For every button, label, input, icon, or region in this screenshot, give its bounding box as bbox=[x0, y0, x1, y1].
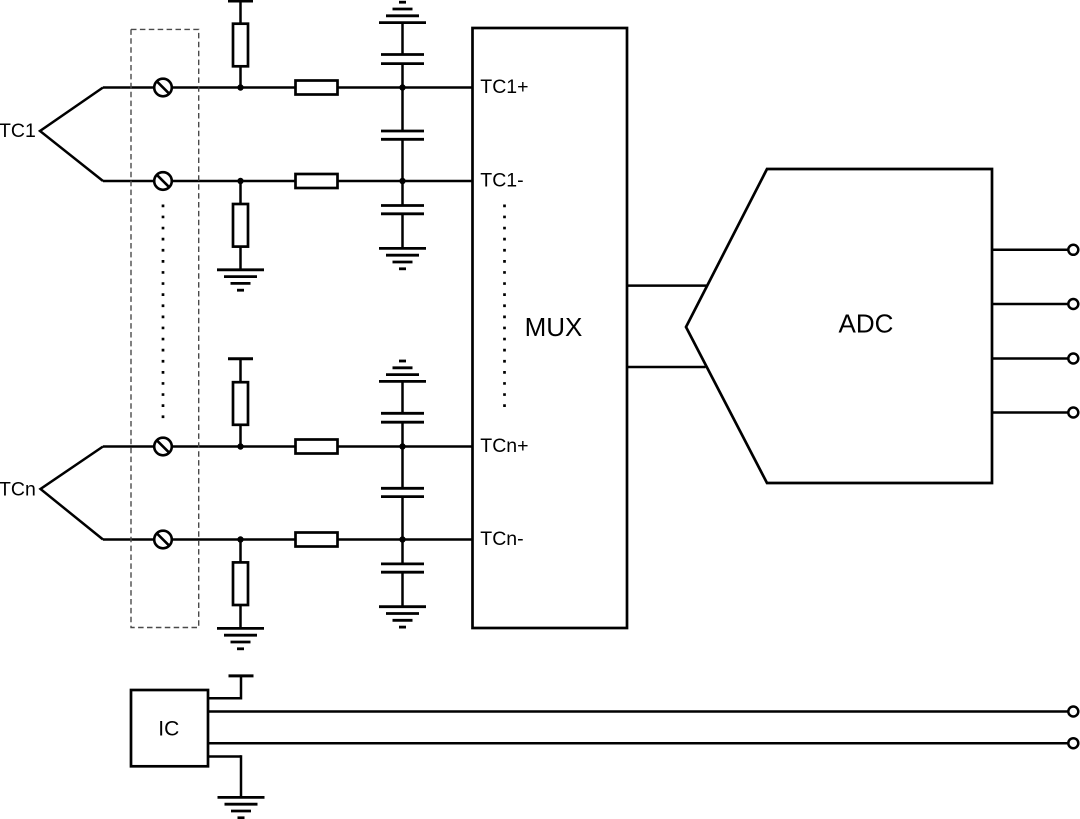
wire R pull-up to TCn+ net bbox=[239, 425, 242, 447]
ground below IC bbox=[218, 797, 265, 817]
svg-text:TCn: TCn bbox=[0, 479, 36, 501]
wire R pull-down to ground TC1- bbox=[239, 247, 242, 270]
wire shield to C (TC1+ to shield cap) bbox=[401, 23, 404, 55]
svg-text:TCn-: TCn- bbox=[480, 528, 523, 550]
wire C to TC1+ net bbox=[401, 64, 404, 131]
svg-text:ADC: ADC bbox=[839, 309, 894, 339]
wire R pull-down to ground TCn- bbox=[239, 605, 242, 628]
svg-text:MUX: MUX bbox=[525, 312, 583, 342]
svg-text:TC1: TC1 bbox=[0, 120, 36, 142]
resistor R pull-down TCn- bbox=[233, 562, 248, 605]
wire MUX to ADC lower bbox=[627, 366, 706, 369]
input connector dashed box bbox=[131, 29, 199, 627]
ground below TC1- pull-down resistor bbox=[217, 270, 264, 290]
wire R pull-up to TC1+ net bbox=[239, 66, 242, 87]
wire ADC output 3 bbox=[992, 357, 1068, 360]
svg-text:IC: IC bbox=[158, 717, 179, 740]
wire C to TCn+ net bbox=[401, 422, 404, 488]
terminal circle ADC output 4 bbox=[1068, 408, 1078, 418]
junction TC1+ / C column bbox=[399, 84, 405, 90]
svg-text:TCn+: TCn+ bbox=[480, 435, 528, 457]
ADC block U2 bbox=[686, 169, 992, 483]
wire IC pin2 output bbox=[208, 710, 1068, 713]
thermocouple TCn bbox=[0, 447, 103, 540]
wire TC1+ net bbox=[103, 86, 473, 89]
wire IC pin3 output bbox=[208, 742, 1068, 745]
resistor R pull-up TCn+ bbox=[233, 382, 248, 425]
wire IC pin4 to ground bbox=[208, 755, 241, 797]
IC block U3 bbox=[131, 690, 208, 766]
terminal circle IC pin2 bbox=[1068, 707, 1078, 717]
power rail bar above IC bbox=[229, 674, 254, 677]
svg-text:TC1-: TC1- bbox=[480, 170, 523, 192]
capacitor C differential TC1 bbox=[381, 131, 424, 139]
wire TC1- net to R pull-down bbox=[239, 181, 242, 204]
ground below C column TCn bbox=[379, 607, 426, 627]
wire TCn- net to R pull-down bbox=[239, 540, 242, 563]
wire C differential to TC1- net bbox=[401, 139, 404, 205]
connector pin TCn- (circle with slash) bbox=[154, 531, 172, 549]
connector pin TC1+ (circle with slash) bbox=[154, 79, 172, 97]
capacitor C TC1+ to shield bbox=[381, 55, 424, 64]
connector pin TC1- (circle with slash) bbox=[154, 172, 172, 190]
capacitor C differential TCn bbox=[381, 488, 424, 496]
wire C differential to TCn- net bbox=[401, 497, 404, 564]
power rail bar above TC1+ pull-up resistor bbox=[228, 0, 253, 3]
capacitor C TCn- to ground bbox=[381, 564, 424, 572]
resistor R pull-up TC1+ bbox=[233, 24, 248, 67]
svg-text:TC1+: TC1+ bbox=[480, 76, 528, 98]
wire C to ground TCn- bbox=[401, 572, 404, 607]
wire TCn- net bbox=[103, 538, 473, 541]
wire power to R pull-up TC1+ bbox=[239, 1, 242, 24]
resistor R series TC1- bbox=[296, 174, 338, 188]
resistor R series TCn+ bbox=[296, 440, 338, 454]
capacitor C TCn+ to shield bbox=[381, 413, 424, 422]
wire TC1- net bbox=[103, 180, 473, 183]
ground below C column TC1 bbox=[379, 248, 426, 268]
capacitor C TC1- to ground bbox=[381, 206, 424, 214]
resistor R pull-down TC1- bbox=[233, 204, 248, 247]
wire ADC output 1 bbox=[992, 249, 1068, 252]
junction TCn- / C column bbox=[399, 536, 405, 542]
power rail bar above TCn+ pull-up resistor bbox=[228, 357, 253, 360]
wire MUX to ADC upper bbox=[627, 284, 707, 287]
wire shield to C (TCn+ shield cap) bbox=[401, 381, 404, 413]
thermocouple TC1 bbox=[0, 88, 103, 182]
wire ADC output 2 bbox=[992, 303, 1068, 306]
junction TCn- / pull-down bbox=[237, 536, 243, 542]
junction TCn+ / C column bbox=[399, 443, 405, 449]
terminal circle ADC output 3 bbox=[1068, 354, 1078, 364]
MUX block U1 bbox=[473, 28, 628, 628]
wire power to R pull-up TCn+ bbox=[239, 359, 242, 383]
dotted ellipsis between TC1 and TCn connectors bbox=[162, 205, 165, 425]
wire IC pin1 to power bbox=[208, 676, 241, 700]
shield/earth symbol above C column TC1 bbox=[379, 2, 426, 22]
resistor R series TC1+ bbox=[296, 81, 338, 95]
junction TCn+ / pull-up bbox=[237, 443, 243, 449]
resistor R series TCn- bbox=[296, 533, 338, 547]
wire C to ground TC1- bbox=[401, 214, 404, 249]
dotted ellipsis inside MUX between TC1- and TCn+ bbox=[503, 205, 506, 414]
junction TC1- / C column bbox=[399, 178, 405, 184]
connector pin TCn+ (circle with slash) bbox=[154, 438, 172, 456]
junction TC1+ / pull-up bbox=[237, 84, 243, 90]
shield/earth symbol above C column TCn bbox=[379, 361, 426, 381]
ground below TCn- pull-down resistor bbox=[217, 628, 264, 648]
terminal circle ADC output 2 bbox=[1068, 299, 1078, 309]
terminal circle ADC output 1 bbox=[1068, 245, 1078, 255]
wire TCn+ net bbox=[103, 445, 473, 448]
terminal circle IC pin3 bbox=[1068, 738, 1078, 748]
wire ADC output 4 bbox=[992, 411, 1068, 414]
junction TC1- / pull-down bbox=[237, 178, 243, 184]
